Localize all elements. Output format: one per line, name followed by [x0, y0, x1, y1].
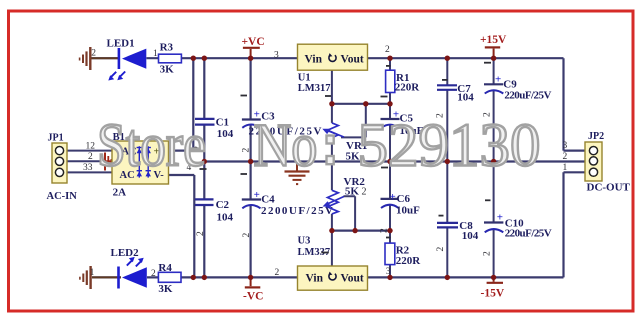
junctions on -VC bottom rail [191, 275, 497, 280]
capacitor C1 [195, 116, 234, 140]
svg-text:LED1: LED1 [107, 37, 135, 49]
svg-text:529130: 529130 [358, 113, 541, 180]
svg-text:2: 2 [385, 45, 390, 55]
svg-text:220R: 220R [395, 82, 421, 94]
capacitor C4 [242, 189, 333, 217]
svg-text:10uF: 10uF [396, 205, 420, 217]
junctions on +VC top rail [191, 56, 497, 61]
power +15V [480, 34, 507, 58]
wire C4 column [250, 162, 252, 278]
svg-text:C4: C4 [261, 193, 275, 205]
resistor R2 [385, 243, 421, 267]
svg-text:Vout: Vout [341, 53, 364, 65]
svg-text:LM317: LM317 [298, 83, 331, 94]
svg-text:220R: 220R [396, 255, 422, 267]
svg-text:Vin: Vin [306, 272, 324, 284]
wire bridge Vminus feed [169, 175, 195, 277]
svg-text:C6: C6 [397, 193, 411, 205]
svg-text:2: 2 [362, 187, 367, 198]
watermark Store No: 529130 [97, 113, 541, 180]
wire C7 C8 column [446, 58, 448, 277]
svg-text:33: 33 [83, 163, 93, 173]
svg-text:104: 104 [462, 230, 479, 242]
svg-text:2: 2 [563, 152, 568, 162]
svg-text:2: 2 [242, 148, 252, 153]
resistor R4 [158, 262, 181, 295]
junctions on ADJ2 net [329, 228, 393, 233]
wire VR2 wiper [344, 196, 356, 230]
ground symbol GND2 at LED2 [79, 266, 121, 289]
svg-text:DC-OUT: DC-OUT [587, 181, 631, 193]
junctions on GND net [202, 159, 497, 164]
capacitor C6 [381, 191, 421, 217]
svg-text:R3: R3 [160, 42, 174, 54]
svg-text:JP1: JP1 [48, 133, 64, 144]
wire bridge plus feed [169, 58, 194, 150]
svg-text:3K: 3K [160, 64, 175, 76]
regulator U3 LM337 [298, 236, 368, 291]
resistor R1 [386, 70, 421, 93]
wire C9 C10 column [493, 58, 495, 277]
wire C2 column [203, 162, 205, 278]
wire JP1 to bridge [67, 151, 112, 173]
wire R1 C5 C6 R2 column [389, 58, 391, 277]
wire bottom rail [92, 172, 585, 277]
capacitor C7 [437, 83, 474, 104]
wire top rail [91, 58, 585, 150]
svg-text:220uF/25V: 220uF/25V [504, 89, 551, 101]
capacitor C3 [242, 108, 322, 137]
svg-text:LED2: LED2 [111, 247, 140, 259]
LED D2 [111, 247, 147, 289]
svg-text:Vout: Vout [341, 272, 364, 284]
svg-text:+: + [254, 189, 260, 201]
power +VC [242, 36, 265, 58]
svg-text:No: No [254, 113, 318, 180]
rotated pin 1 dashes [200, 63, 492, 253]
bridge rectifier B1 [112, 132, 169, 198]
svg-text:2: 2 [151, 269, 156, 279]
svg-text:R4: R4 [158, 262, 172, 274]
svg-text:+: + [497, 212, 503, 224]
svg-text:-VC: -VC [243, 291, 263, 303]
svg-text:2: 2 [242, 233, 252, 238]
svg-text:3: 3 [563, 141, 568, 151]
svg-text:+15V: +15V [480, 34, 507, 46]
svg-text:2: 2 [483, 251, 493, 256]
ground symbol GND1 at LED1 [79, 47, 118, 70]
svg-text:2: 2 [196, 231, 206, 236]
svg-text:1: 1 [153, 49, 158, 59]
connector JP1 [47, 133, 78, 203]
svg-text:12: 12 [86, 142, 96, 152]
wire C1 column [203, 58, 205, 161]
svg-text:1: 1 [563, 163, 568, 173]
capacitor C9 [484, 74, 551, 102]
svg-text:2: 2 [275, 268, 280, 278]
svg-text:C2: C2 [216, 199, 230, 211]
svg-text:U3: U3 [298, 236, 311, 247]
svg-text:220uF/25V: 220uF/25V [505, 228, 552, 240]
svg-text:2A: 2A [113, 186, 127, 198]
svg-text:104: 104 [217, 128, 234, 140]
capacitor C5 [381, 109, 424, 137]
resistor R3 [159, 42, 182, 76]
pin number labels [83, 45, 568, 279]
wire C3 column [250, 58, 252, 161]
power -VC [243, 277, 263, 302]
svg-text:3K: 3K [158, 283, 173, 295]
svg-text:Vin: Vin [305, 53, 323, 65]
power -15V [481, 277, 505, 299]
wire ADJ1 line [332, 103, 390, 105]
ground symbol center [285, 162, 310, 185]
svg-text:5K: 5K [345, 186, 360, 198]
potentiometer VR1 [322, 123, 367, 163]
svg-text:JP2: JP2 [588, 131, 604, 142]
junctions on ADJ1 net [329, 101, 393, 106]
svg-text:2: 2 [436, 247, 446, 252]
potentiometer VR2 [323, 176, 367, 214]
svg-text:+: + [495, 74, 501, 86]
capacitor C10 [484, 212, 552, 240]
svg-text:1: 1 [90, 268, 95, 278]
regulator U1 LM317 [298, 44, 368, 94]
capacitor C2 [195, 199, 234, 224]
svg-text:104: 104 [457, 92, 474, 104]
wire VR1 wiper [341, 104, 366, 138]
svg-text:+: + [390, 191, 396, 203]
svg-text:2: 2 [88, 152, 93, 162]
capacitor C8 [437, 220, 479, 242]
svg-text:2: 2 [380, 228, 390, 233]
svg-text:AC-IN: AC-IN [47, 191, 78, 202]
svg-text:-15V: -15V [481, 288, 505, 300]
wire ADJ2 line [332, 230, 390, 232]
connector JP2 [585, 131, 631, 193]
svg-text:3: 3 [386, 267, 391, 277]
svg-text:3: 3 [274, 51, 279, 61]
wire ground line [204, 160, 585, 162]
rotated pin 2 labels [194, 112, 493, 256]
ground symbol red at JP1 pin2 [101, 153, 111, 171]
svg-text:2: 2 [91, 49, 96, 59]
svg-text:+VC: +VC [242, 36, 265, 48]
LED D1 [107, 37, 147, 80]
wire VR column [331, 70, 333, 266]
svg-text:104: 104 [217, 212, 234, 224]
svg-text:Store: Store [97, 113, 206, 180]
svg-text:C1: C1 [216, 116, 229, 128]
